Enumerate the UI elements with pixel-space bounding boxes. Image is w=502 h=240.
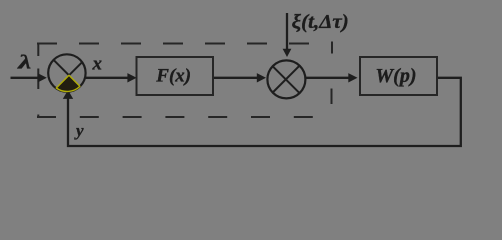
svg-text:W(p): W(p) [375,65,416,87]
svg-text:ξ(t,Δτ): ξ(t,Δτ) [292,11,349,33]
svg-text:λ: λ [17,52,32,74]
svg-text:F(x): F(x) [155,66,191,87]
svg-text:y: y [74,121,84,140]
svg-text:x: x [92,54,103,75]
